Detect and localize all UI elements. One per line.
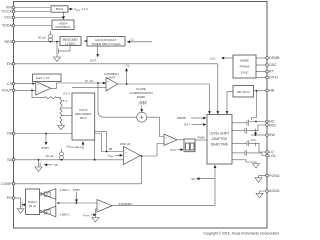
- svg-text:STBY: STBY: [41, 146, 49, 150]
- svg-text:RES: RES: [4, 40, 12, 44]
- svg-text:ADAPTIVE: ADAPTIVE: [212, 137, 228, 141]
- svg-text:PWM: PWM: [198, 135, 206, 139]
- svg-text:TIMER 256-CYCLES: TIMER 256-CYCLES: [91, 42, 120, 46]
- svg-text:1.086 V: 1.086 V: [60, 213, 70, 217]
- svg-text:STBY: STBY: [73, 188, 81, 192]
- svg-text:HB UVLO: HB UVLO: [237, 90, 250, 94]
- svg-text:HOL: HOL: [269, 124, 277, 128]
- svg-text:SW: SW: [269, 133, 275, 137]
- svg-text:DEMB/: DEMB/: [240, 59, 249, 63]
- svg-text:20 µA: 20 µA: [46, 154, 54, 158]
- svg-text:3.3 V: 3.3 V: [63, 92, 70, 96]
- svg-text:1.356 V: 1.356 V: [60, 188, 70, 192]
- svg-text:SYNC: SYNC: [240, 71, 248, 75]
- svg-text:SS: SS: [54, 163, 58, 167]
- svg-text:70 mV: 70 mV: [85, 79, 94, 83]
- svg-text:20 µA: 20 µA: [38, 36, 46, 40]
- svg-text:CL: CL: [131, 38, 135, 42]
- svg-text:Gain = 12: Gain = 12: [36, 76, 49, 80]
- svg-text:PGND: PGND: [269, 174, 280, 178]
- svg-text:FPWM/: FPWM/: [240, 65, 250, 69]
- svg-text:FB: FB: [109, 147, 113, 151]
- svg-text:RAMP: RAMP: [137, 95, 145, 99]
- svg-text:VCC: VCC: [251, 138, 257, 142]
- svg-text:LOL: LOL: [269, 154, 276, 158]
- svg-text:AGND: AGND: [269, 189, 280, 193]
- svg-text:OUT: OUT: [184, 123, 190, 127]
- svg-text:DITH: DITH: [269, 76, 278, 80]
- svg-text:VCCX: VCCX: [2, 10, 13, 14]
- svg-text:VOUT: VOUT: [2, 89, 13, 93]
- svg-text:LOGIC: LOGIC: [65, 42, 76, 46]
- svg-text:SS: SS: [7, 158, 12, 162]
- svg-text:DEMB: DEMB: [177, 116, 185, 120]
- svg-text:CS: CS: [7, 82, 13, 86]
- svg-text:RT: RT: [269, 70, 275, 74]
- svg-text:1500 µS: 1500 µS: [120, 142, 131, 146]
- svg-text:SS: SS: [191, 177, 195, 181]
- svg-text:OSC: OSC: [269, 63, 277, 67]
- svg-text:FB: FB: [7, 132, 12, 136]
- svg-text:DEAD TIME: DEAD TIME: [211, 143, 228, 147]
- svg-text:25 µs: 25 µs: [29, 204, 37, 208]
- svg-text:EN: EN: [7, 62, 12, 66]
- svg-text:COMP: COMP: [1, 182, 13, 186]
- svg-text:CLK: CLK: [210, 56, 216, 60]
- svg-text:LEVEL SHIFT: LEVEL SHIFT: [210, 132, 230, 136]
- svg-text:Copyright © 2016, Texas Instru: Copyright © 2016, Texas Instruments Inco…: [203, 232, 279, 236]
- svg-text:BIAS: BIAS: [56, 7, 63, 11]
- svg-text:VDDA: VDDA: [2, 24, 13, 28]
- svg-text:HB: HB: [269, 89, 275, 93]
- svg-text:STANDBY: STANDBY: [118, 202, 132, 206]
- svg-text:VCC: VCC: [4, 16, 12, 20]
- svg-text:PG: PG: [7, 196, 12, 200]
- svg-text:CL: CL: [126, 64, 130, 68]
- svg-text:5 V: 5 V: [63, 99, 68, 103]
- svg-text:CLK: CLK: [170, 148, 176, 152]
- svg-text:MUX: MUX: [80, 116, 87, 120]
- svg-text:DEMB: DEMB: [269, 56, 280, 60]
- svg-text:CONTROL: CONTROL: [55, 25, 70, 29]
- svg-text:OUT: OUT: [90, 59, 97, 63]
